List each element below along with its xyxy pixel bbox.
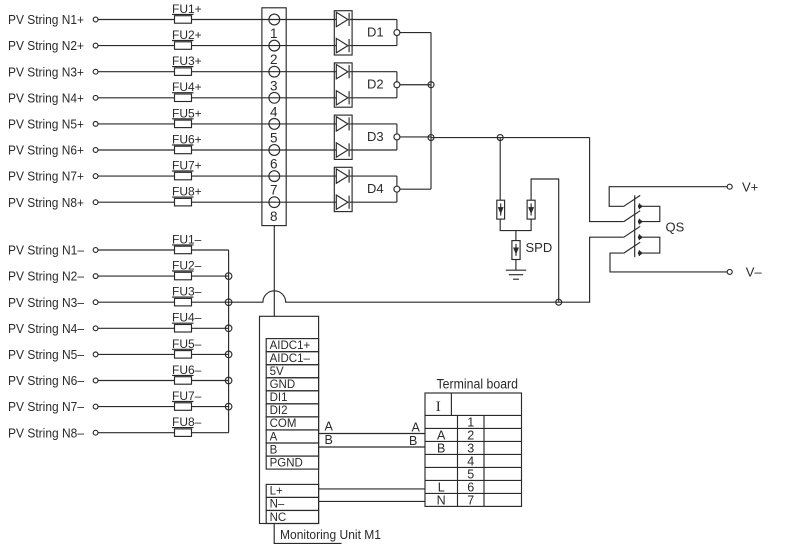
diode pair D1	[334, 11, 352, 55]
terminal board header cell I	[425, 414, 522, 416]
wire terminal strip to monitoring unit M1	[273, 226, 275, 317]
fuse FU2&#8211;	[175, 272, 192, 280]
fuse FU1&#8211;	[175, 246, 192, 254]
svg-text:COM: COM	[270, 418, 297, 430]
svg-text:N–: N–	[270, 499, 285, 511]
svg-text:B: B	[409, 434, 417, 448]
terminal board row line 1	[425, 427, 522, 429]
M1 pin N&#8211;	[266, 497, 318, 510]
svg-text:DI2: DI2	[270, 405, 288, 417]
M1 pin B	[266, 443, 318, 456]
M1 pin GND	[266, 378, 318, 391]
svg-text:A: A	[437, 428, 446, 442]
svg-text:FU4–: FU4–	[172, 311, 202, 325]
diode pair D4	[334, 167, 352, 211]
wire positive line to switch pole 2	[590, 138, 624, 222]
wire diode pair D4 output	[350, 175, 397, 177]
svg-text:D3: D3	[367, 129, 384, 144]
svg-text:PV String N3–: PV String N3–	[8, 295, 85, 310]
ground	[515, 260, 517, 271]
svg-text:FU8–: FU8–	[172, 415, 202, 429]
wire string 5&#8211; to bus	[98, 353, 229, 355]
svg-text:5: 5	[270, 131, 278, 146]
M1 pin A	[266, 430, 318, 443]
wire string 6+ to diode	[98, 149, 336, 151]
svg-text:PV String N2–: PV String N2–	[8, 269, 85, 284]
wire string 4+ to diode	[98, 97, 336, 99]
node bus/D2 junction	[428, 82, 434, 88]
svg-text:7: 7	[467, 493, 474, 507]
terminal strip pin 6	[269, 145, 280, 156]
svg-text:FU2–: FU2–	[172, 259, 202, 273]
svg-text:FU3–: FU3–	[172, 285, 202, 299]
svg-text:5: 5	[467, 467, 474, 481]
svg-text:1: 1	[270, 26, 278, 41]
fuse FU7+	[175, 172, 192, 180]
wire RS485 B	[319, 446, 425, 448]
switch QS pole 2 blade	[624, 211, 640, 222]
wire string 8&#8211; to bus	[98, 432, 229, 434]
fuse FU7&#8211;	[175, 403, 192, 411]
svg-text:V–: V–	[746, 265, 763, 280]
svg-text:FU2+: FU2+	[172, 28, 202, 42]
svg-text:PV String N8–: PV String N8–	[8, 425, 85, 440]
svg-text:AIDC1–: AIDC1–	[270, 353, 311, 365]
wire string 6&#8211; to bus	[98, 380, 229, 382]
output terminal V+	[727, 184, 732, 189]
wire surge arrester 2 to negative line	[531, 179, 559, 302]
svg-text:FU7–: FU7–	[172, 389, 202, 403]
svg-text:DI1: DI1	[270, 392, 288, 404]
terminal board row line 2	[425, 440, 522, 442]
terminal strip pin 5	[269, 119, 280, 130]
svg-text:1: 1	[467, 415, 474, 429]
fuse FU3+	[175, 68, 192, 76]
wire arrester commons	[500, 219, 531, 231]
svg-text:B: B	[437, 441, 445, 455]
wire jumper poles 3-4	[641, 237, 660, 253]
svg-text:3: 3	[270, 78, 278, 93]
svg-text:6: 6	[270, 157, 278, 172]
wire string 3+ to diode	[98, 71, 336, 73]
svg-text:SPD: SPD	[526, 240, 553, 255]
svg-text:A: A	[270, 431, 278, 443]
terminal strip pin 8	[269, 197, 280, 208]
wire string 5+ to diode	[98, 123, 336, 125]
wire string 7&#8211; to bus	[98, 406, 229, 408]
wire string 4&#8211; to bus	[98, 327, 229, 329]
wire string 1&#8211; to bus	[98, 249, 229, 251]
svg-text:B: B	[325, 433, 333, 447]
switch QS pole 4 blade	[624, 242, 640, 253]
M1 pin AIDC1+	[266, 339, 318, 352]
disconnect switch QS linkage	[634, 195, 636, 257]
switch QS pole 4 contact	[638, 250, 640, 256]
wire negative collection bus	[228, 250, 230, 433]
svg-text:PV String N1–: PV String N1–	[8, 243, 85, 258]
switch QS pole 2 contact	[638, 219, 640, 225]
svg-text:D1: D1	[367, 24, 384, 39]
diode pair D2	[334, 63, 352, 107]
terminal strip pin 1	[269, 14, 280, 25]
M1 pin COM	[266, 417, 318, 430]
svg-text:FU4+: FU4+	[172, 80, 202, 94]
wire common to SPD ground element	[515, 231, 517, 241]
terminal strip (positive combiner)	[262, 8, 286, 226]
terminal strip pin 2	[269, 40, 280, 51]
wire positive main line	[431, 137, 590, 139]
fuse FU5&#8211;	[175, 351, 192, 359]
M1 pin DI2	[266, 404, 318, 417]
wire diode pair D1 output	[350, 19, 397, 21]
svg-text:Monitoring Unit M1: Monitoring Unit M1	[280, 527, 381, 542]
svg-text:L: L	[438, 480, 445, 494]
fuse FU8&#8211;	[175, 429, 192, 437]
svg-text:A: A	[412, 421, 421, 435]
wire string 7+ to diode	[98, 175, 336, 177]
wire diode pair D2 output	[350, 71, 397, 73]
wire jumper poles 1-2	[641, 206, 660, 221]
svg-text:V+: V+	[742, 179, 758, 194]
terminal strip pin 7	[269, 171, 280, 182]
terminal board column lines	[457, 415, 459, 506]
svg-text:8: 8	[270, 209, 278, 224]
diode pair D3	[334, 115, 352, 159]
svg-text:QS: QS	[666, 220, 685, 235]
svg-text:PV String N5+: PV String N5+	[8, 117, 84, 132]
svg-text:I: I	[436, 399, 441, 415]
wire positive tap to surge arrester 1	[499, 138, 501, 201]
node negative bus row 4	[225, 325, 232, 332]
node SPD tap on negative line	[556, 299, 562, 305]
output terminal V&#8211;	[727, 269, 732, 274]
svg-text:PV String N6–: PV String N6–	[8, 373, 85, 388]
svg-text:PV String N3+: PV String N3+	[8, 64, 84, 79]
svg-text:PV String N2+: PV String N2+	[8, 38, 84, 53]
node negative bus row 3	[225, 299, 232, 306]
wire negative main line (hop over monitor wire)	[229, 237, 624, 302]
svg-text:FU7+: FU7+	[172, 159, 202, 173]
svg-text:FU8+: FU8+	[172, 185, 202, 199]
wire string 3&#8211; to bus	[98, 301, 229, 303]
wire string 2&#8211; to bus	[98, 275, 229, 277]
svg-text:GND: GND	[270, 379, 296, 391]
terminal strip pin 3	[269, 66, 280, 77]
switch QS pole 3 contact	[638, 234, 640, 240]
node D3 output	[394, 134, 400, 140]
svg-text:3: 3	[467, 441, 474, 455]
terminal strip pin 4	[269, 92, 280, 103]
svg-text:PV String N4–: PV String N4–	[8, 321, 85, 336]
terminal board row line 5	[425, 479, 522, 481]
fuse FU3&#8211;	[175, 298, 192, 306]
M1 pin PGND	[266, 456, 318, 469]
surge arrester SPD (ground element)	[512, 241, 520, 260]
surge arrester FV2 (negative)	[527, 200, 535, 219]
wire pole 1 to V+ terminal	[609, 187, 727, 207]
svg-text:Terminal board: Terminal board	[437, 376, 519, 391]
svg-text:L+: L+	[270, 486, 283, 498]
svg-text:D4: D4	[367, 181, 384, 196]
fuse FU2+	[175, 42, 192, 50]
fuse FU5+	[175, 120, 192, 128]
svg-text:PV String N7+: PV String N7+	[8, 169, 84, 184]
wire power L	[319, 488, 425, 490]
node negative bus row 6	[225, 377, 232, 384]
svg-text:2: 2	[270, 52, 278, 67]
fuse FU4&#8211;	[175, 325, 192, 333]
M1 pin 5V	[266, 365, 318, 378]
wire RS485 A	[319, 433, 425, 435]
wire diode pair D3 output	[350, 123, 397, 125]
svg-text:NC: NC	[270, 512, 287, 524]
fuse FU8+	[175, 198, 192, 206]
node D1 output	[394, 30, 400, 36]
svg-text:2: 2	[467, 428, 474, 442]
node bus/D3 junction	[428, 135, 434, 141]
M1 pin L+	[266, 484, 318, 497]
node D4 output	[394, 186, 400, 192]
svg-text:D2: D2	[367, 77, 384, 92]
terminal board outline	[425, 393, 522, 506]
svg-text:PGND: PGND	[270, 457, 303, 469]
svg-text:4: 4	[270, 104, 278, 119]
wire power N	[319, 500, 425, 502]
svg-text:N: N	[437, 493, 446, 507]
node D2 output	[394, 82, 400, 88]
wire pole 4 to V&#8211; terminal	[610, 253, 727, 272]
terminal board row line 4	[425, 466, 522, 468]
switch QS pole 1 blade	[624, 195, 640, 206]
svg-text:FU1–: FU1–	[172, 232, 202, 246]
wire string 1+ to diode	[98, 19, 336, 21]
svg-text:5V: 5V	[270, 366, 284, 378]
M1 pin DI1	[266, 391, 318, 404]
M1 pin NC	[266, 510, 318, 523]
switch QS pole 3 blade	[624, 226, 640, 237]
svg-text:PV String N6+: PV String N6+	[8, 143, 84, 158]
svg-text:6: 6	[467, 480, 474, 494]
svg-text:PV String N7–: PV String N7–	[8, 399, 85, 414]
wire string 2+ to diode	[98, 45, 336, 47]
svg-text:FU6–: FU6–	[172, 363, 202, 377]
fuse FU6+	[175, 146, 192, 154]
surge arrester FV1 (positive)	[497, 200, 505, 219]
svg-text:A: A	[325, 420, 334, 434]
svg-text:PV String N4+: PV String N4+	[8, 90, 84, 105]
svg-text:PV String N5–: PV String N5–	[8, 347, 85, 362]
M1 pin AIDC1&#8211;	[266, 352, 318, 365]
fuse FU6&#8211;	[175, 377, 192, 385]
svg-text:B: B	[270, 444, 278, 456]
svg-text:FU6+: FU6+	[172, 132, 202, 146]
terminal board row line 3	[425, 453, 522, 455]
svg-text:FU5+: FU5+	[172, 106, 202, 120]
wire string 8+ to diode	[98, 201, 336, 203]
node SPD tap on positive line	[497, 135, 503, 141]
terminal board row line 6	[425, 492, 522, 494]
svg-text:PV String N8+: PV String N8+	[8, 195, 84, 210]
node negative bus row 5	[225, 351, 232, 358]
monitoring unit M1 outline	[260, 316, 319, 523]
svg-text:7: 7	[270, 183, 278, 198]
node negative bus row 2	[225, 273, 232, 280]
wire positive collection bus	[430, 33, 432, 190]
svg-text:4: 4	[467, 454, 474, 468]
fuse FU1+	[175, 16, 192, 24]
node negative bus row 7	[225, 403, 232, 410]
switch QS pole 1 contact	[638, 203, 640, 209]
fuse FU4+	[175, 94, 192, 102]
svg-text:FU5–: FU5–	[172, 337, 202, 351]
svg-text:FU1+: FU1+	[172, 2, 202, 16]
svg-text:FU3+: FU3+	[172, 54, 202, 68]
svg-text:AIDC1+: AIDC1+	[270, 340, 311, 352]
svg-text:PV String N1+: PV String N1+	[8, 12, 84, 27]
